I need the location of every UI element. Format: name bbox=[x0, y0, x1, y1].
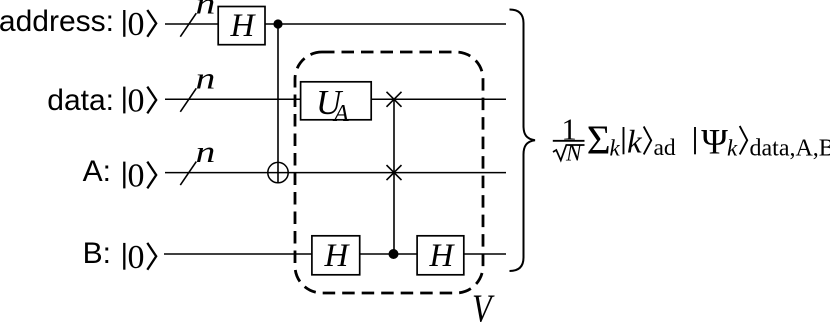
svg-text:H: H bbox=[230, 8, 257, 44]
fraction bar bbox=[553, 140, 585, 142]
ket |0> B bbox=[124, 239, 156, 276]
svg-text:B:: B: bbox=[83, 237, 111, 270]
brace bbox=[510, 10, 536, 272]
svg-text:0: 0 bbox=[128, 158, 145, 195]
svg-text:H: H bbox=[429, 238, 456, 274]
svg-text:n: n bbox=[196, 61, 216, 96]
wire B bbox=[164, 253, 506, 255]
svg-text:n: n bbox=[196, 134, 216, 169]
svg-text:k: k bbox=[727, 135, 738, 160]
control wire CNOT bbox=[277, 24, 279, 183]
ket bar psi bbox=[694, 127, 696, 154]
swap cross data bbox=[387, 92, 402, 107]
svg-text:A:: A: bbox=[83, 155, 111, 188]
gate H B right bbox=[417, 236, 464, 275]
wire A bbox=[165, 172, 506, 174]
ket |0> A bbox=[124, 158, 156, 195]
svg-text:N: N bbox=[565, 141, 583, 166]
svg-text:Ψ: Ψ bbox=[701, 121, 728, 161]
svg-text:ad: ad bbox=[654, 135, 676, 161]
bus slash data bbox=[180, 88, 196, 112]
svg-text:data:: data: bbox=[47, 84, 114, 117]
ket |0> data bbox=[124, 83, 156, 120]
svg-text:k: k bbox=[627, 125, 643, 161]
svg-text:data,A,B: data,A,B bbox=[750, 136, 830, 162]
control dot address bbox=[273, 19, 282, 28]
svg-text:0: 0 bbox=[128, 6, 145, 43]
svg-text:address:: address: bbox=[0, 5, 114, 38]
wire address bbox=[165, 23, 506, 25]
svg-text:0: 0 bbox=[128, 83, 145, 120]
swap cross A bbox=[387, 165, 402, 180]
svg-text:V: V bbox=[472, 287, 495, 322]
bus slash A bbox=[180, 162, 196, 186]
gate H address bbox=[218, 7, 265, 45]
ket |0> address bbox=[124, 6, 156, 43]
svg-text:0: 0 bbox=[128, 239, 145, 276]
svg-text:A: A bbox=[332, 101, 349, 127]
ket rangle psi bbox=[740, 126, 748, 154]
svg-text:Σ: Σ bbox=[587, 116, 611, 162]
ket rangle k bbox=[644, 127, 652, 155]
control dot B bbox=[389, 249, 399, 259]
svg-text:H: H bbox=[324, 238, 351, 274]
swap wire bbox=[393, 99, 395, 254]
gate H B left bbox=[312, 236, 360, 275]
bus slash address bbox=[180, 13, 196, 37]
CNOT target A bbox=[268, 162, 288, 182]
dashed box V bbox=[295, 52, 483, 293]
wire data bbox=[165, 98, 506, 100]
ket bar k bbox=[623, 127, 625, 154]
gate UA data bbox=[301, 82, 372, 127]
svg-text:n: n bbox=[196, 0, 216, 20]
svg-text:k: k bbox=[610, 135, 621, 160]
radical sqrt bbox=[553, 145, 585, 160]
